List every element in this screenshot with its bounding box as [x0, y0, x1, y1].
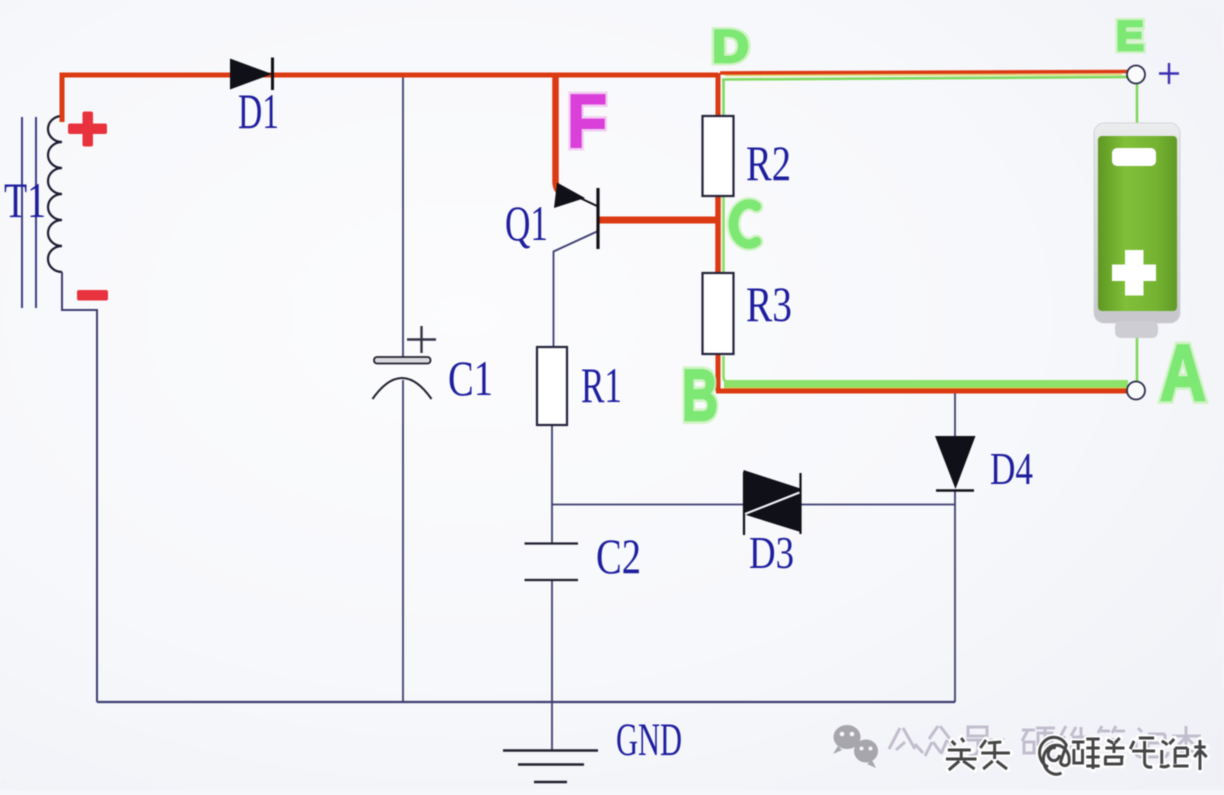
node D: [712, 21, 749, 72]
wire green battery to A: [1136, 336, 1139, 381]
terminal E circle: [1127, 66, 1145, 84]
wire B node to D4: [954, 393, 956, 437]
wire green D to E: [722, 77, 1127, 80]
wire green D node down to R2: [722, 80, 725, 118]
wire red D to E: [720, 72, 1128, 74]
svg-text:D: D: [712, 21, 749, 72]
wire red B to A: [716, 389, 1130, 394]
wire red R2 to R3 through C: [715, 194, 721, 275]
capacitor C1 plus mark: [407, 326, 436, 353]
battery bottom bump: [1115, 321, 1158, 338]
wire green B to A: [724, 380, 1128, 388]
transistor Q1 base bar: [596, 188, 599, 249]
capacitor C1 top plate: [374, 357, 431, 364]
svg-text:Q1: Q1: [505, 195, 548, 251]
resistor R1: [537, 347, 567, 425]
diode D1: [230, 58, 273, 91]
svg-text:GND: GND: [616, 714, 682, 766]
svg-text:R2: R2: [746, 135, 791, 191]
wire bottom ground rail: [97, 701, 955, 703]
wire red D node down to R2: [716, 73, 721, 118]
wire D3 to D4: [800, 504, 955, 506]
node B: [682, 356, 718, 436]
wire junction to D3: [552, 504, 744, 506]
svg-text:D4: D4: [990, 443, 1033, 494]
T1 polarity minus: [77, 290, 108, 301]
wire R1 to junction: [551, 425, 553, 543]
battery minus mark: [1112, 148, 1156, 166]
svg-text:R3: R3: [746, 276, 792, 332]
wire seam D to E: [725, 75, 1122, 76]
ground symbol: [503, 751, 598, 783]
node F: [567, 79, 607, 163]
watermark wechat icon: [833, 725, 878, 768]
battery plus mark: [1112, 250, 1156, 296]
node A: [1160, 328, 1206, 417]
wire green R2 to R3 through C: [722, 196, 725, 275]
capacitor C2: [525, 544, 579, 581]
terminal E plus mark: [1159, 63, 1179, 84]
capacitor C1 curved plate: [373, 378, 432, 399]
wire green E to battery: [1136, 84, 1139, 125]
wire T1 bottom step: [62, 272, 97, 702]
svg-text:T1: T1: [4, 172, 46, 228]
node C: [733, 204, 756, 244]
wire C2 to ground rail: [551, 581, 553, 750]
wire red Q1 emitter feed: [556, 73, 564, 194]
wire red T1 to D node (top rail): [62, 75, 718, 122]
wire C1 branch bottom: [402, 380, 404, 702]
svg-text:D1: D1: [238, 83, 279, 139]
wire Q1 collector to R1: [554, 232, 598, 348]
svg-text:E: E: [1116, 12, 1144, 59]
node E: [1116, 12, 1144, 59]
battery shell: [1094, 123, 1180, 323]
svg-text:C1: C1: [448, 350, 493, 406]
wire red Q1 base to C node: [599, 217, 716, 224]
svg-text:C2: C2: [596, 528, 641, 584]
transformer T1 core lines: [22, 117, 36, 308]
svg-text:D3: D3: [749, 527, 794, 578]
diode D3: [744, 470, 801, 535]
transistor Q1 emitter line: [578, 197, 597, 206]
wire red R3 to B node: [716, 354, 721, 391]
wire seam B to A: [724, 387, 1127, 389]
resistor R2: [703, 116, 734, 196]
watermark wechat icon eyes: [840, 732, 873, 751]
terminal A circle: [1127, 382, 1145, 400]
watermark light text: [889, 726, 1201, 758]
svg-text:A: A: [1160, 328, 1206, 417]
resistor R3: [703, 273, 734, 354]
wire C1 branch top: [402, 77, 404, 357]
T1 polarity plus: [68, 112, 107, 147]
transistor Q1 emitter arrow: [554, 183, 585, 209]
wire green R3 to B node: [724, 356, 736, 384]
svg-text:B: B: [682, 356, 718, 436]
battery green body: [1098, 136, 1177, 311]
svg-text:F: F: [567, 79, 607, 163]
diode D4: [935, 436, 976, 491]
watermark dark text: [946, 737, 1207, 774]
transformer T1 winding coil: [48, 116, 62, 272]
wire D4 to ground rail: [954, 490, 956, 702]
svg-text:R1: R1: [581, 357, 622, 413]
